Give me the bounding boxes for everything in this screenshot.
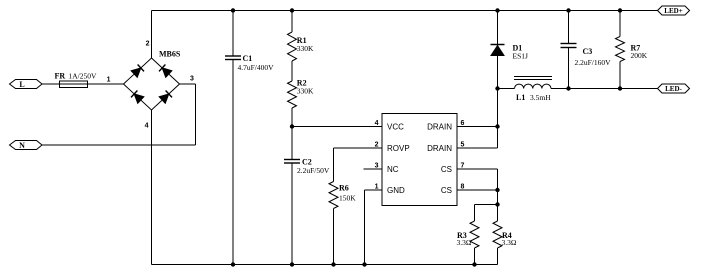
- svg-text:L1: L1: [516, 93, 525, 102]
- node bottom rail / C2: [290, 262, 294, 266]
- node top rail / R7: [618, 8, 622, 12]
- wire R3 to bottom rail: [474, 248, 476, 265]
- op IC U1 body: [382, 114, 457, 206]
- svg-text:5: 5: [461, 142, 465, 149]
- node top rail / R1: [290, 8, 294, 12]
- resistor R6: [329, 182, 338, 209]
- svg-text:1: 1: [107, 77, 111, 84]
- node bottom rail / GND: [362, 262, 366, 266]
- wire CS node branch to R3: [475, 204, 498, 206]
- svg-text:GND: GND: [387, 186, 405, 195]
- svg-text:2.2uF/160V: 2.2uF/160V: [575, 58, 612, 67]
- node D1-L1: [495, 86, 499, 90]
- wire top rail down through D1 to drain column: [497, 11, 499, 149]
- wire top rail to R1: [291, 11, 293, 33]
- wire GND pin 1 stub: [365, 189, 383, 191]
- node bottom rail / R6: [331, 262, 335, 266]
- svg-text:330K: 330K: [297, 44, 314, 53]
- wire C3 bottom: [568, 48, 570, 89]
- wire VCC node down to C2: [291, 127, 293, 160]
- svg-text:R6: R6: [339, 184, 349, 193]
- wire R4 to bottom rail: [497, 248, 499, 265]
- svg-text:CS: CS: [441, 165, 452, 174]
- bridge diode left-to-top: [131, 64, 144, 77]
- svg-text:2.2uF/50V: 2.2uF/50V: [297, 166, 330, 175]
- svg-text:7: 7: [461, 163, 465, 170]
- node VCC: [290, 124, 294, 128]
- wire R2 to VCC node: [291, 108, 293, 127]
- wire L terminal to fuse to bridge pin1: [42, 83, 124, 85]
- wire DRAIN pin 5: [457, 147, 498, 149]
- capacitor C3 plates: [561, 43, 577, 45]
- inductor L1: [515, 84, 552, 88]
- svg-text:N: N: [19, 141, 25, 150]
- svg-text:DRAIN: DRAIN: [427, 123, 452, 132]
- svg-text:ES1J: ES1J: [513, 52, 529, 61]
- wire bridge pin4 down to bottom rail: [151, 110, 153, 265]
- node top rail / C3: [566, 8, 570, 12]
- svg-text:4: 4: [145, 123, 149, 130]
- svg-text:L: L: [19, 80, 24, 89]
- bridge diode right-to-top: [159, 64, 172, 77]
- wire D1 node to L1: [498, 88, 515, 90]
- wire L1 to LED- terminal: [551, 88, 658, 90]
- terminal N: [10, 141, 43, 150]
- wire R1 to R2: [291, 61, 293, 81]
- svg-text:2: 2: [146, 41, 150, 48]
- wire C1 bottom: [232, 60, 234, 265]
- wire down to R6: [333, 148, 335, 182]
- wire GND down to bottom rail: [364, 190, 366, 265]
- svg-text:4: 4: [375, 120, 379, 127]
- svg-text:8: 8: [461, 184, 465, 191]
- svg-text:3.5mH: 3.5mH: [530, 93, 551, 102]
- svg-text:NC: NC: [387, 165, 399, 174]
- svg-text:C1: C1: [243, 54, 253, 63]
- wire bridge pin3 down to N net: [195, 84, 197, 145]
- svg-text:LED+: LED+: [664, 7, 682, 15]
- node bottom rail / C1: [231, 262, 235, 266]
- node bottom rail / R3: [472, 262, 476, 266]
- svg-text:3.3Ω: 3.3Ω: [502, 238, 517, 247]
- terminal L: [10, 80, 43, 89]
- resistor R3: [470, 221, 479, 248]
- wire C1 top: [232, 11, 234, 57]
- svg-text:CS: CS: [441, 186, 452, 195]
- svg-text:3.3Ω: 3.3Ω: [457, 238, 472, 247]
- capacitor C2 plates: [284, 159, 300, 161]
- bridge diode bottom-to-left: [131, 90, 144, 103]
- wire CS pin 8: [457, 189, 498, 191]
- terminal LED+: [658, 6, 690, 15]
- node drain pin6: [495, 124, 499, 128]
- svg-text:3: 3: [375, 163, 379, 170]
- svg-text:3: 3: [190, 76, 194, 83]
- svg-text:1A/250V: 1A/250V: [69, 72, 98, 81]
- resistor R4: [493, 221, 502, 248]
- terminal LED-: [658, 84, 690, 93]
- wire CS pin 7: [457, 168, 498, 170]
- bridge rectifier MB6S body: [124, 58, 180, 110]
- node top rail / C1: [231, 8, 235, 12]
- wire NC pin 3 stub: [364, 168, 383, 170]
- wire top rail to R7: [619, 11, 621, 37]
- wire top positive rail: [152, 10, 658, 12]
- wire ROVP pin 2 to R6 branch: [334, 147, 383, 149]
- node LED- / C3: [566, 86, 570, 90]
- inductor L1 core lines: [514, 76, 552, 78]
- svg-text:150K: 150K: [339, 194, 356, 203]
- wire C2 bottom to rail: [291, 163, 293, 265]
- svg-text:DRAIN: DRAIN: [427, 144, 452, 153]
- wire R6 to bottom rail: [333, 209, 335, 265]
- wire bottom ground rail: [152, 264, 498, 266]
- node CS / R3 R4: [495, 202, 499, 206]
- svg-text:FR: FR: [55, 72, 66, 81]
- wire N terminal to bridge pin3: [42, 144, 196, 146]
- bridge diode bottom-to-right: [159, 90, 172, 103]
- resistor R2: [288, 81, 297, 108]
- capacitor C1 plates: [225, 55, 241, 57]
- svg-text:1: 1: [375, 184, 379, 191]
- svg-text:330K: 330K: [297, 87, 314, 96]
- diode D1: [491, 45, 505, 56]
- wire bridge pin3 stub: [180, 83, 196, 85]
- wire C3 top: [568, 11, 570, 44]
- svg-text:VCC: VCC: [387, 123, 404, 132]
- node CS pin8: [495, 188, 499, 192]
- svg-text:MB6S: MB6S: [159, 50, 181, 59]
- fuse FR: [60, 81, 88, 88]
- svg-text:6: 6: [461, 120, 465, 127]
- wire R7 to LED- net: [619, 62, 621, 89]
- svg-text:4.7uF/400V: 4.7uF/400V: [238, 63, 275, 72]
- wire down to R3: [474, 205, 476, 222]
- wire bridge pin2 to top rail: [151, 11, 153, 59]
- svg-text:2: 2: [375, 142, 379, 149]
- wire DRAIN pin 6: [457, 126, 498, 128]
- wire VCC node to pin 4: [292, 126, 382, 128]
- svg-text:200K: 200K: [631, 51, 648, 60]
- resistor R7: [616, 37, 625, 62]
- svg-text:LED-: LED-: [665, 85, 682, 93]
- svg-text:ROVP: ROVP: [387, 144, 410, 153]
- svg-text:C3: C3: [583, 47, 593, 56]
- wire CS pin 7 down to pin 8 net: [497, 169, 499, 205]
- node top rail / D1: [495, 8, 499, 12]
- node LED- / R7: [618, 86, 622, 90]
- wire CS node down to R4: [497, 205, 499, 222]
- resistor R1: [288, 32, 297, 61]
